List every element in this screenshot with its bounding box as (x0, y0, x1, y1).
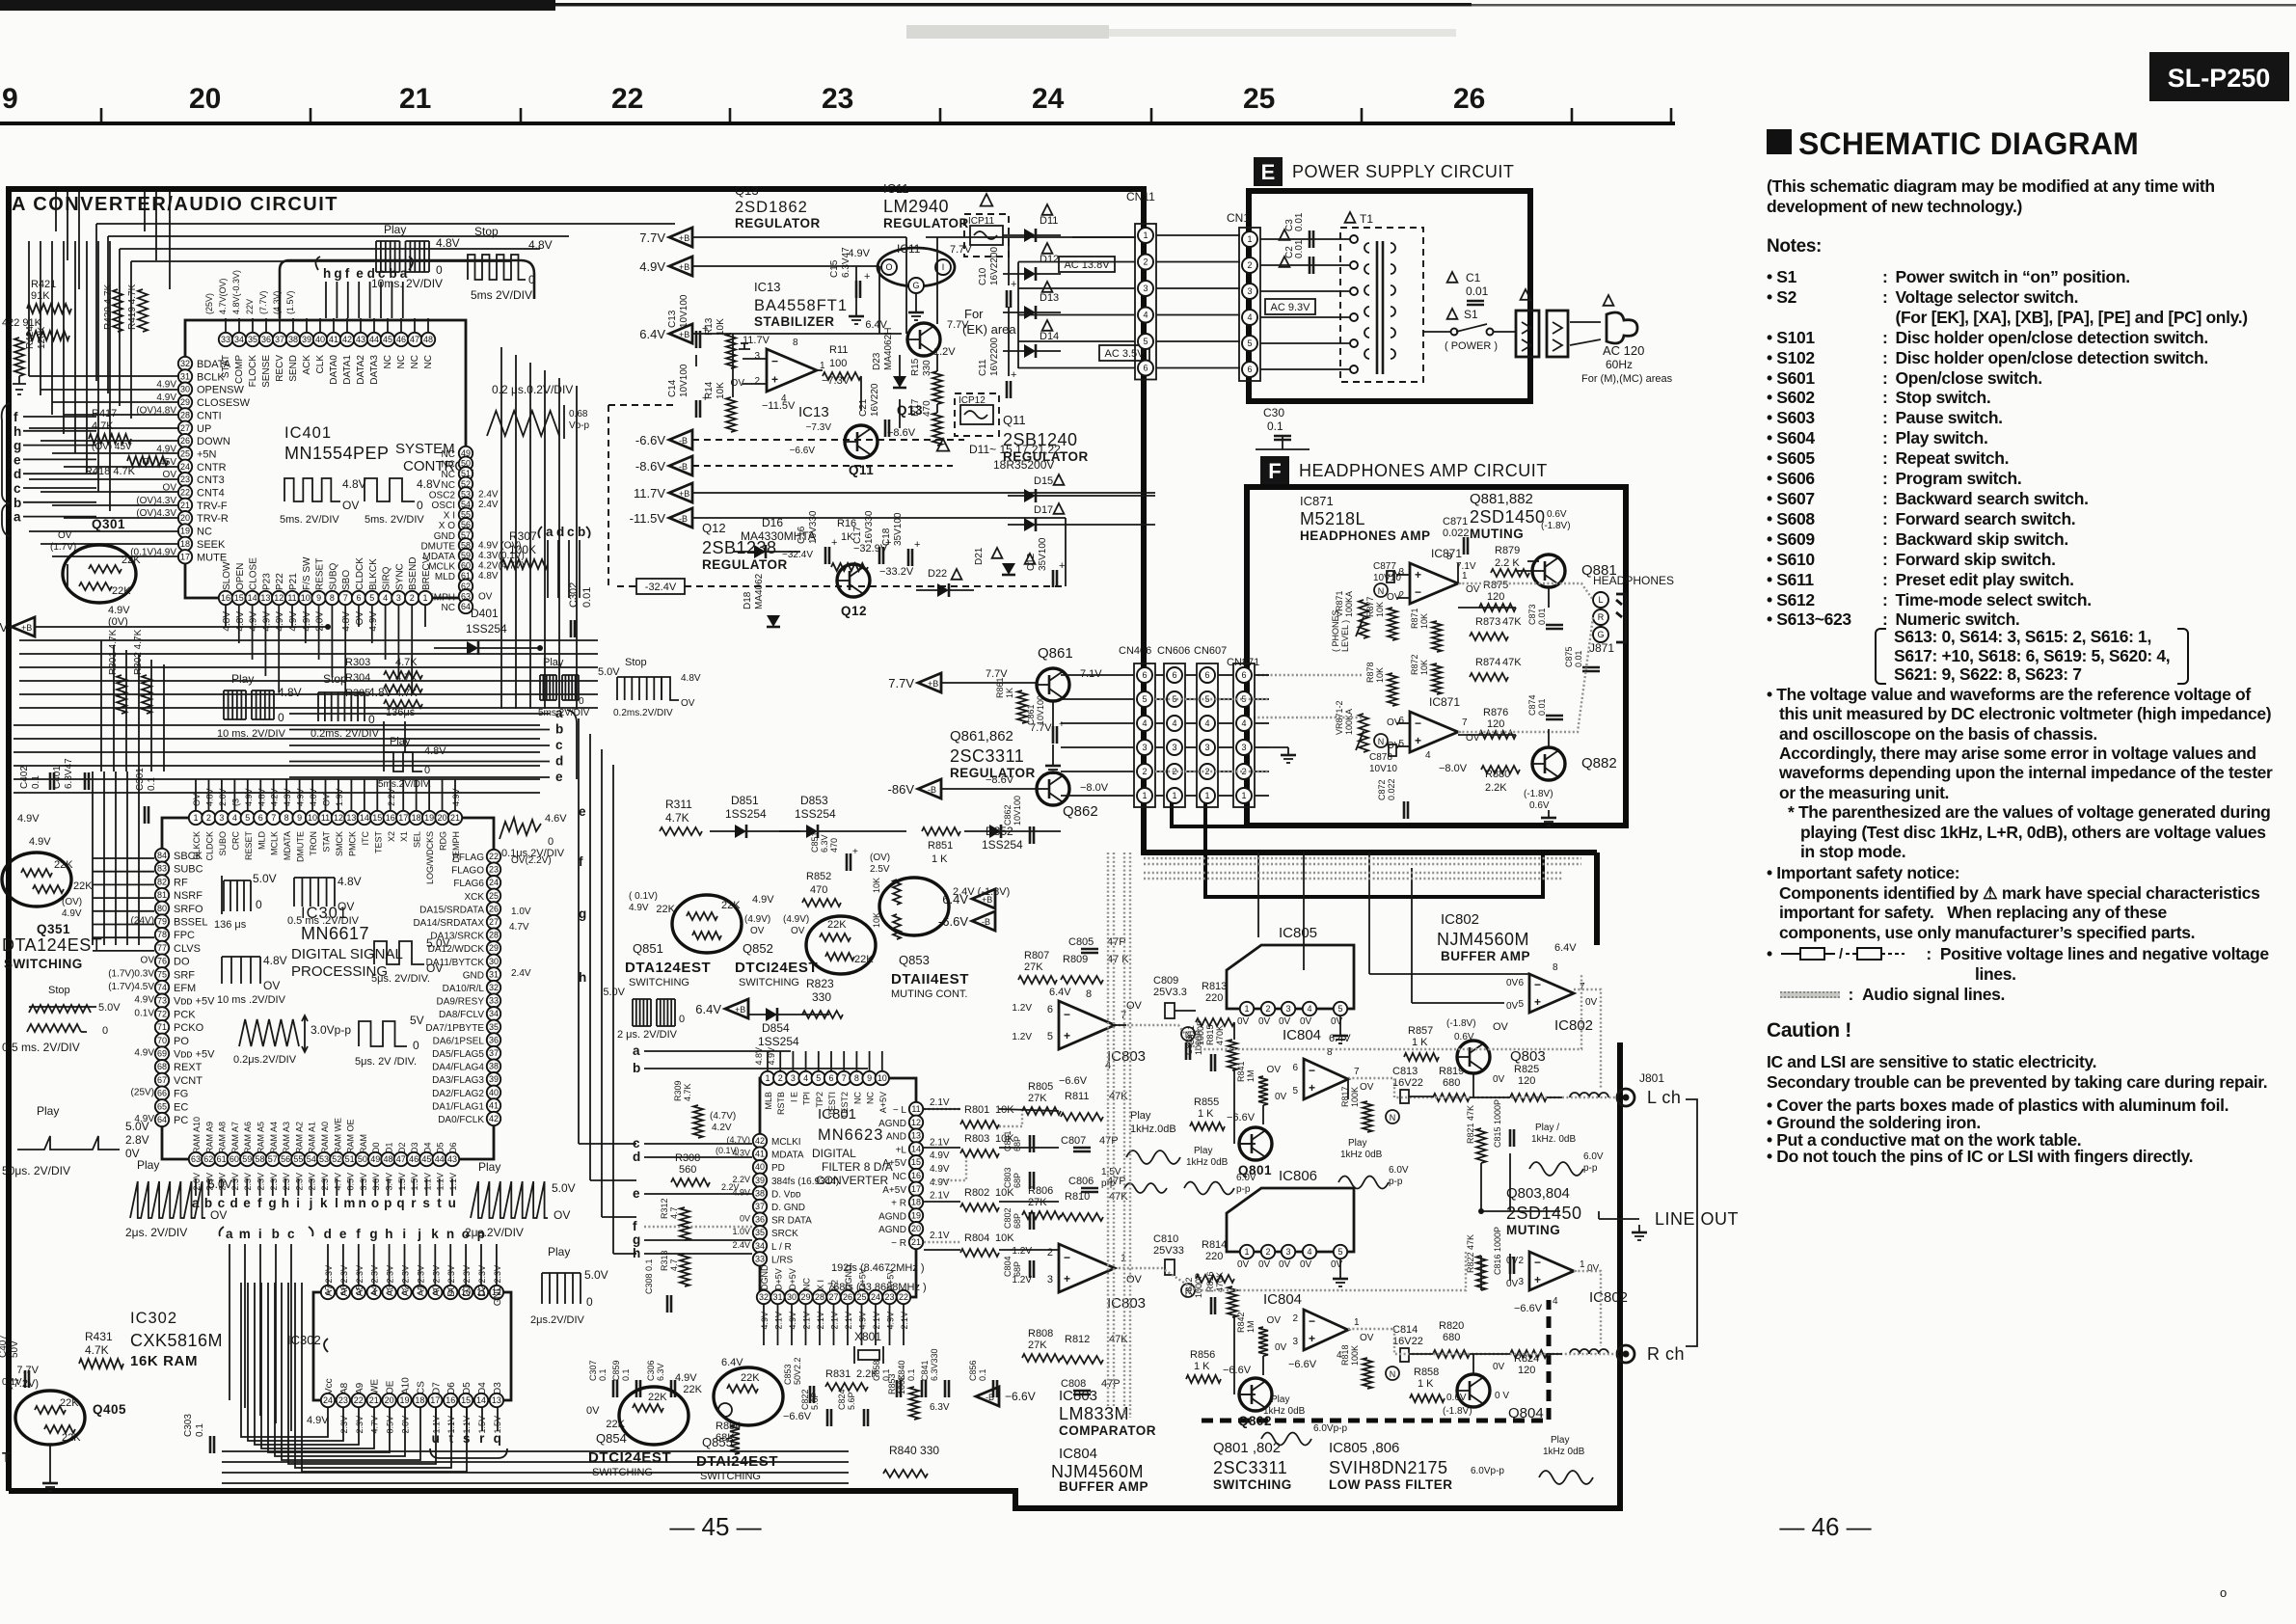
power supply box (1249, 191, 1530, 401)
svg-text:83: 83 (157, 864, 167, 874)
svg-text:22K: 22K (741, 1372, 760, 1384)
svg-text:R307: R307 (509, 529, 537, 543)
svg-text:g: g (14, 439, 22, 453)
svg-text:P22: P22 (275, 573, 285, 590)
svg-text:SWITCHING: SWITCHING (4, 957, 83, 971)
svg-text:CLK: CLK (315, 355, 326, 374)
waveform 5ms pair (284, 478, 340, 501)
svg-text:5: 5 (369, 593, 374, 603)
svg-text:26: 26 (489, 904, 499, 913)
svg-text:-B: -B (679, 514, 688, 524)
svg-text:R831: R831 (825, 1368, 851, 1380)
svg-text:5ms. 2V/DIV: 5ms. 2V/DIV (365, 514, 424, 526)
svg-text:CLDCK: CLDCK (355, 557, 365, 590)
svg-text:0V: 0V (1258, 1016, 1271, 1027)
svg-text:4.7V: 4.7V (509, 922, 529, 933)
capacitor C3 0.01 (1280, 230, 1290, 240)
svg-text:Q855: Q855 (702, 1435, 733, 1449)
svg-text:RAM A3: RAM A3 (282, 1122, 291, 1153)
svg-text:0V: 0V (1300, 1016, 1312, 1027)
wire CN11 to regulators (1072, 236, 1136, 238)
svg-text:+: + (1415, 734, 1421, 747)
op-amp IC803 lower (1059, 1244, 1115, 1292)
svg-text:DA9/RESY: DA9/RESY (437, 997, 485, 1008)
svg-text:CNTR: CNTR (197, 462, 227, 474)
svg-text:78: 78 (157, 930, 167, 939)
svg-text:1.2V: 1.2V (1012, 1032, 1032, 1042)
svg-text:4.9V: 4.9V (244, 788, 254, 806)
svg-text:q: q (494, 1431, 502, 1446)
svg-text:AND: AND (886, 1132, 906, 1143)
svg-text:4.9V: 4.9V (760, 1312, 770, 1330)
svg-text:SBCK: SBCK (174, 851, 203, 862)
svg-text:16V2200: 16V2200 (989, 247, 1000, 285)
svg-text:IC11: IC11 (897, 242, 921, 256)
svg-text:6.0Vp-p: 6.0Vp-p (1471, 1466, 1504, 1476)
svg-text:SBO: SBO (341, 570, 352, 590)
svg-text:4.2V: 4.2V (270, 788, 280, 806)
svg-text:P23: P23 (261, 573, 272, 590)
svg-text:41: 41 (755, 1150, 765, 1159)
svg-text:39: 39 (489, 1074, 499, 1084)
svg-text:C806: C806 (1068, 1176, 1094, 1187)
svg-text:3: 3 (791, 1073, 796, 1083)
vertical bus center (500, 347, 502, 709)
svg-text:A+5V: A+5V (882, 1185, 906, 1196)
svg-text:5V: 5V (410, 1014, 424, 1027)
CN11 wires to E box (1156, 234, 1240, 236)
svg-text:D16: D16 (762, 516, 783, 529)
svg-text:DMUTE: DMUTE (296, 831, 306, 862)
svg-text:74: 74 (157, 983, 167, 992)
svg-text:25V33: 25V33 (1153, 1245, 1184, 1257)
svg-text:6.3V47: 6.3V47 (841, 247, 851, 278)
svg-text:R301 4.7K: R301 4.7K (108, 629, 119, 675)
svg-text:4: 4 (1553, 1296, 1558, 1307)
svg-text:SWITCHING: SWITCHING (629, 977, 689, 988)
svg-text:−: − (1064, 1008, 1070, 1021)
svg-text:i: i (296, 1196, 300, 1210)
svg-text:NC: NC (197, 527, 212, 538)
svg-text:RAM OE: RAM OE (346, 1119, 356, 1153)
svg-text:0.1V: 0.1V (2, 1377, 22, 1388)
svg-text:A7: A7 (324, 1285, 335, 1297)
svg-text:120: 120 (1518, 1365, 1535, 1376)
svg-text:31: 31 (772, 1292, 782, 1302)
svg-text:NC: NC (383, 355, 393, 368)
svg-text:6.4V: 6.4V (639, 327, 665, 341)
svg-text:22K: 22K (60, 1397, 79, 1409)
svg-text:Play: Play (137, 1158, 159, 1172)
svg-text:BA4558FT1: BA4558FT1 (754, 297, 848, 314)
svg-text:9: 9 (316, 593, 321, 603)
supply triangle 6.4V mid (725, 999, 748, 1018)
IC U302 CXK5816M body (313, 1292, 511, 1400)
svg-text:D3: D3 (410, 1142, 419, 1153)
svg-text:WE: WE (370, 1379, 381, 1394)
svg-text:8: 8 (284, 813, 289, 823)
svg-text:24: 24 (323, 1395, 333, 1405)
svg-text:27: 27 (489, 917, 499, 927)
svg-text:D853: D853 (800, 794, 828, 807)
svg-text:RAM WE: RAM WE (333, 1118, 342, 1153)
svg-text:+: + (852, 847, 858, 857)
svg-text:2.2K: 2.2K (1485, 782, 1507, 794)
svg-text:D17: D17 (1034, 504, 1053, 516)
svg-text:1: 1 (1247, 234, 1252, 244)
svg-text:4.9V: 4.9V (29, 836, 51, 848)
op-amp IC803 upper (1059, 1001, 1115, 1049)
svg-text:4.0V: 4.0V (309, 788, 318, 806)
svg-text:4.9V: 4.9V (639, 259, 665, 274)
transistor Q405 (15, 1391, 85, 1445)
svg-text:192fs (8.4672MHz ): 192fs (8.4672MHz ) (831, 1262, 925, 1274)
svg-text:47K: 47K (1109, 1334, 1128, 1345)
svg-text:26: 26 (180, 436, 190, 446)
svg-text:IC806: IC806 (1279, 1168, 1317, 1184)
svg-text:2: 2 (754, 376, 760, 387)
svg-text:4.9V: 4.9V (451, 788, 461, 806)
boxed label -32.4V (636, 579, 685, 594)
svg-text:NC: NC (802, 1278, 812, 1290)
svg-text:C858: C858 (872, 1360, 881, 1381)
svg-text:IC11: IC11 (883, 181, 909, 196)
svg-text:29: 29 (180, 397, 190, 407)
svg-text:25: 25 (856, 1292, 866, 1302)
svg-text:TRON: TRON (309, 831, 318, 856)
svg-text:44: 44 (369, 335, 379, 344)
svg-text:DA5/FLAG5: DA5/FLAG5 (432, 1049, 484, 1060)
supply rails (692, 236, 906, 238)
svg-text:60Hz: 60Hz (1606, 358, 1633, 371)
svg-text:24: 24 (489, 878, 499, 887)
svg-text:4.9V: 4.9V (788, 1312, 797, 1330)
svg-text:18: 18 (911, 1198, 921, 1207)
svg-text:DA2/FLAG2: DA2/FLAG2 (432, 1089, 484, 1099)
svg-text:76: 76 (157, 957, 167, 966)
svg-text:D0: D0 (446, 1285, 457, 1297)
svg-text:AGND: AGND (878, 1119, 906, 1129)
svg-text:+L: +L (896, 1145, 907, 1155)
svg-text:32: 32 (180, 359, 190, 368)
svg-text:A4: A4 (370, 1285, 381, 1297)
svg-text:64: 64 (461, 602, 471, 611)
svg-text:NC: NC (442, 460, 455, 471)
svg-text:−: − (771, 354, 778, 367)
svg-text:−7.3V: −7.3V (806, 422, 832, 433)
svg-text:d: d (230, 1196, 239, 1210)
svg-text:ITC: ITC (361, 831, 370, 846)
svg-text:-6.6V: -6.6V (635, 433, 665, 447)
svg-text:Q853: Q853 (899, 953, 930, 967)
svg-text:g: g (633, 1232, 641, 1247)
svg-text:AC 9.3V: AC 9.3V (1271, 302, 1311, 313)
svg-text:AGND: AGND (878, 1225, 906, 1235)
svg-text:10V100: 10V100 (1036, 695, 1045, 725)
svg-text:R876: R876 (1483, 707, 1508, 718)
svg-text:0.01: 0.01 (1537, 608, 1547, 625)
svg-text:-B: -B (928, 785, 936, 795)
T1 wires from CN1 (1260, 238, 1350, 240)
svg-text:5.0V: 5.0V (603, 987, 625, 998)
svg-text:+B: +B (679, 489, 689, 499)
svg-text:Play: Play (1551, 1435, 1569, 1446)
svg-text:1.1V: 1.1V (436, 1173, 446, 1191)
svg-text:R802: R802 (964, 1187, 989, 1199)
svg-text:D6: D6 (446, 1382, 457, 1394)
svg-text:22K: 22K (648, 1392, 667, 1403)
svg-text:D3: D3 (493, 1382, 503, 1394)
svg-text:8: 8 (330, 593, 335, 603)
svg-text:29: 29 (800, 1292, 810, 1302)
svg-text:d: d (556, 525, 565, 539)
svg-text:PO: PO (174, 1036, 189, 1047)
svg-text:RAM A10: RAM A10 (192, 1117, 202, 1153)
svg-text:4.8V: 4.8V (257, 788, 266, 806)
svg-text:Q12: Q12 (841, 604, 867, 618)
svg-text:c: c (555, 738, 563, 752)
svg-text:50: 50 (358, 1154, 367, 1164)
svg-text:CN11: CN11 (1126, 190, 1155, 203)
svg-text:27K: 27K (1028, 1197, 1047, 1208)
svg-text:8: 8 (793, 338, 798, 348)
svg-text:0.01: 0.01 (1574, 650, 1583, 667)
svg-text:0: 0 (278, 711, 284, 724)
svg-text:HEADPHONES AMP: HEADPHONES AMP (1300, 528, 1431, 543)
svg-text:2.3V: 2.3V (446, 1265, 456, 1284)
svg-text:4: 4 (1172, 718, 1176, 728)
svg-text:c: c (567, 525, 575, 539)
svg-text:33: 33 (221, 335, 230, 344)
svg-text:0.1V: 0.1V (134, 1008, 154, 1018)
svg-text:h: h (385, 1227, 393, 1241)
svg-text:4.8V: 4.8V (681, 673, 701, 684)
svg-text:0.2 μs.0.2V/DIV: 0.2 μs.0.2V/DIV (492, 383, 573, 396)
svg-text:6.3V: 6.3V (820, 834, 829, 853)
svg-text:M5218L: M5218L (1300, 509, 1365, 528)
svg-text:22K: 22K (73, 880, 93, 892)
svg-text:6: 6 (828, 1073, 833, 1083)
IC11 regulator oval (878, 248, 955, 286)
svg-text:D4: D4 (477, 1382, 488, 1394)
svg-text:2.3V: 2.3V (431, 1265, 441, 1284)
svg-text:C805: C805 (1068, 936, 1094, 948)
svg-text:R873: R873 (1475, 616, 1500, 628)
svg-text:LOG/WDCKS: LOG/WDCKS (425, 831, 435, 884)
svg-text:C307: C307 (588, 1360, 598, 1381)
svg-text:SUBQ: SUBQ (328, 562, 338, 590)
svg-text:9V: 9V (0, 620, 8, 635)
svg-text:i: i (402, 1227, 406, 1241)
svg-text:4.7V(OV): 4.7V(OV) (218, 278, 228, 314)
svg-text:f: f (356, 1227, 361, 1241)
svg-text:C18: C18 (881, 528, 892, 546)
svg-text:8: 8 (1086, 988, 1092, 1000)
svg-text:9: 9 (2, 83, 18, 115)
svg-text:CLVS: CLVS (174, 943, 201, 955)
svg-text:73: 73 (157, 996, 167, 1006)
svg-text:68P: 68P (1013, 1173, 1022, 1188)
svg-text:1.2V: 1.2V (1012, 1246, 1032, 1257)
svg-text:1000P: 1000P (1196, 1020, 1205, 1045)
svg-text:C872: C872 (1377, 779, 1387, 800)
svg-text:6.0Vp-p: 6.0Vp-p (1313, 1423, 1347, 1434)
svg-text:SENSE: SENSE (261, 355, 272, 388)
svg-text:L/RS: L/RS (771, 1255, 794, 1265)
svg-text:R855: R855 (1194, 1096, 1219, 1108)
svg-text:F/S SW: F/S SW (302, 556, 312, 590)
wire hook from pin36 up (280, 260, 534, 318)
svg-text:(4.7V): (4.7V) (710, 1111, 736, 1122)
svg-text:+: + (702, 323, 708, 335)
svg-text:0.01: 0.01 (581, 587, 593, 608)
svg-text:5.0V: 5.0V (98, 1002, 121, 1014)
svg-text:4.3V: 4.3V (283, 788, 292, 806)
svg-text:I E: I E (789, 1092, 798, 1102)
svg-text:16V330: 16V330 (864, 510, 875, 544)
svg-text:3: 3 (1204, 743, 1209, 752)
svg-text:1SS254: 1SS254 (795, 807, 836, 821)
svg-text:Q804: Q804 (1508, 1405, 1544, 1421)
wires into IC301 left (93, 857, 154, 859)
model label SL-P250 (2149, 52, 2289, 101)
svg-text:120K: 120K (37, 326, 47, 349)
svg-text:0: 0 (579, 696, 584, 707)
svg-text:R874: R874 (1475, 657, 1500, 668)
svg-text:6.4V: 6.4V (1049, 987, 1071, 998)
svg-text:+: + (1011, 279, 1016, 290)
svg-text:OV: OV (1493, 1021, 1509, 1033)
svg-text:4.8V: 4.8V (338, 875, 362, 888)
svg-text:11: 11 (321, 813, 330, 823)
svg-text:Q301: Q301 (92, 517, 125, 531)
svg-text:NJM4560M: NJM4560M (1437, 930, 1529, 949)
svg-text:34: 34 (755, 1241, 765, 1251)
svg-text:MDATA: MDATA (283, 831, 292, 860)
svg-text:4.9V: 4.9V (307, 1415, 329, 1426)
svg-text:R821 47K: R821 47K (1466, 1105, 1475, 1144)
svg-text:4.8V: 4.8V (478, 571, 499, 582)
svg-text:6.4V: 6.4V (942, 892, 968, 907)
svg-text:2SD1450: 2SD1450 (1506, 1204, 1582, 1223)
svg-text:1 K: 1 K (1418, 1378, 1434, 1390)
svg-text:1.0V: 1.0V (732, 1227, 750, 1236)
svg-text:4.9V: 4.9V (767, 1047, 776, 1066)
svg-text:2.3V: 2.3V (294, 1173, 304, 1191)
svg-text:COMPARATOR: COMPARATOR (1059, 1423, 1156, 1438)
svg-text:1: 1 (1580, 1259, 1585, 1270)
svg-text:2.3V: 2.3V (282, 1173, 291, 1191)
svg-text:D5: D5 (436, 1142, 446, 1153)
svg-text:16V2200: 16V2200 (989, 338, 1000, 376)
svg-text:VCNT: VCNT (174, 1075, 203, 1087)
svg-text:PFLAG: PFLAG (452, 853, 484, 863)
svg-text:38: 38 (288, 335, 298, 344)
svg-text:PCKO: PCKO (174, 1022, 204, 1034)
svg-text:−6.6V: −6.6V (1227, 1112, 1256, 1123)
svg-text:C807: C807 (1061, 1135, 1086, 1147)
svg-text:4.6V: 4.6V (545, 813, 567, 825)
svg-text:D851: D851 (731, 794, 759, 807)
svg-text:D22: D22 (928, 568, 947, 580)
svg-text:R: R (1598, 612, 1605, 622)
svg-text:R819: R819 (1439, 1066, 1464, 1077)
svg-text:5.0V: 5.0V (584, 1268, 608, 1282)
svg-text:C401: C401 (52, 766, 63, 789)
svg-text:− R: − R (891, 1238, 906, 1249)
svg-text:120: 120 (1487, 591, 1504, 603)
IC U401 MN1554PEP body (185, 320, 466, 598)
svg-text:0.1: 0.1 (195, 1423, 205, 1437)
svg-text:0: 0 (413, 1039, 419, 1052)
svg-text:25V3.3: 25V3.3 (1153, 987, 1187, 998)
svg-text:0: 0 (417, 499, 423, 512)
svg-text:MUTING: MUTING (1470, 527, 1524, 541)
svg-text:Q11: Q11 (1003, 413, 1026, 427)
svg-text:CN406: CN406 (1119, 645, 1151, 657)
svg-text:10V100: 10V100 (1013, 796, 1022, 826)
svg-text:4: 4 (803, 1073, 808, 1083)
svg-text:36: 36 (755, 1215, 765, 1225)
svg-text:Q851: Q851 (633, 941, 663, 956)
svg-text:3: 3 (1285, 1247, 1290, 1257)
svg-text:(1.7V)4.5V: (1.7V)4.5V (108, 982, 154, 992)
svg-text:R811: R811 (1065, 1091, 1089, 1102)
svg-text:2: 2 (1142, 767, 1147, 776)
svg-text:+: + (702, 392, 708, 404)
svg-text:D+5V: D+5V (774, 1268, 784, 1290)
svg-text:1SS254: 1SS254 (758, 1035, 799, 1048)
svg-text:0V: 0V (1506, 1279, 1519, 1289)
svg-text:2.3V: 2.3V (401, 1265, 411, 1284)
waveform 0.5ms comb (293, 878, 295, 907)
svg-text:6: 6 (1143, 364, 1148, 373)
svg-text:1.2V: 1.2V (1012, 1275, 1032, 1286)
svg-text:31: 31 (489, 969, 499, 979)
svg-text:−8.0V: −8.0V (1439, 763, 1468, 774)
svg-text:3: 3 (396, 593, 401, 603)
svg-text:R305: R305 (345, 688, 370, 699)
svg-text:13: 13 (911, 1131, 921, 1141)
svg-text:4.8V: 4.8V (204, 788, 214, 806)
svg-text:68P: 68P (1013, 1136, 1022, 1151)
svg-text:58: 58 (255, 1154, 264, 1164)
svg-text:41: 41 (329, 335, 338, 344)
svg-text:TPI: TPI (802, 1092, 812, 1105)
svg-text:−6.6V: −6.6V (1288, 1359, 1317, 1370)
svg-text:3: 3 (1292, 1337, 1298, 1347)
svg-text:RF: RF (174, 877, 188, 888)
svg-text:RDG: RDG (439, 831, 448, 851)
svg-text:RAM A5: RAM A5 (257, 1122, 266, 1153)
svg-text:4.9V: 4.9V (261, 611, 272, 632)
svg-text:OV: OV (554, 1208, 570, 1222)
svg-text:R303: R303 (345, 657, 370, 668)
svg-text:p-p: p-p (1583, 1163, 1598, 1174)
svg-text:43: 43 (447, 1154, 457, 1164)
svg-text:D6: D6 (448, 1142, 458, 1153)
svg-text:44: 44 (435, 1154, 445, 1164)
svg-text:24: 24 (180, 462, 190, 472)
svg-text:C810: C810 (1153, 1233, 1178, 1245)
svg-text:Q11: Q11 (849, 463, 874, 477)
op-amp IC871 lower (1410, 712, 1458, 752)
svg-text:0V: 0V (586, 1405, 600, 1417)
svg-text:d: d (14, 467, 22, 481)
svg-text:+: + (1534, 995, 1541, 1009)
svg-text:MUTE: MUTE (197, 552, 227, 563)
svg-text:BCLK: BCLK (197, 371, 225, 383)
